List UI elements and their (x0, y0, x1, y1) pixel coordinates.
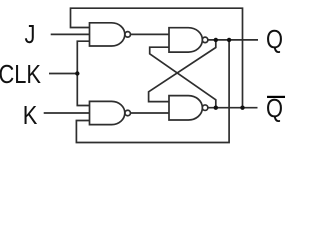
junction dot Q-bar to top rail (240, 106, 244, 110)
svg-text:K: K (23, 101, 38, 130)
wire U1 output to U3 input (130, 33, 169, 35)
wire cross-coupling Q to U4 (149, 40, 216, 102)
wire bottom feedback rail (76, 40, 229, 143)
overline of Q-bar (267, 96, 285, 98)
junction dot Q-bar to cross-coupling (214, 106, 218, 110)
wire cross-coupling Q-bar to U3 (150, 47, 216, 107)
nand gate U3 (Q latch gate) (169, 28, 208, 52)
svg-text:CLK: CLK (0, 60, 41, 89)
wire top feedback rail (71, 8, 243, 108)
junction dot Q to cross-coupling (214, 38, 218, 42)
nand gate U2 (K input gate) (90, 101, 131, 124)
wire Q-bar output (208, 107, 258, 109)
wire K input (44, 112, 90, 114)
svg-text:Q: Q (266, 25, 283, 54)
wire Q output (208, 39, 258, 41)
wire J input (51, 33, 90, 35)
svg-text:Q: Q (266, 94, 283, 123)
svg-text:J: J (24, 20, 35, 49)
junction dot Q to bottom rail (227, 38, 231, 42)
junction dot CLK branch (75, 71, 79, 75)
wire CLK input (49, 73, 77, 75)
wire U2 output to U4 input (130, 112, 169, 114)
nand gate U4 (Q-bar latch gate) (169, 96, 208, 120)
wire CLK vertical branch (77, 41, 89, 105)
nand gate U1 (J input gate) (90, 23, 131, 46)
